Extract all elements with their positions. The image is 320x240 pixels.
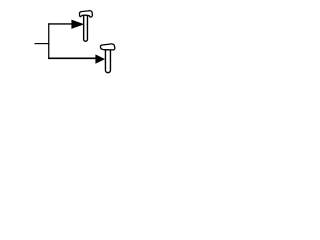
wire W4 (bottom branch): [48, 57, 96, 59]
arrowhead A2 (bottom branch, points right): [95, 54, 105, 63]
pin P1 shank: [84, 16, 88, 42]
pin P1 head: [79, 11, 92, 17]
pin P2 shank: [105, 49, 110, 73]
wire W1 (left input stub): [35, 43, 50, 45]
wire W2 (vertical bus): [48, 23, 50, 59]
arrowhead A1 (top branch, points right): [71, 20, 84, 29]
pin P2 head: [100, 44, 114, 50]
wire W3 (top branch): [48, 23, 72, 25]
